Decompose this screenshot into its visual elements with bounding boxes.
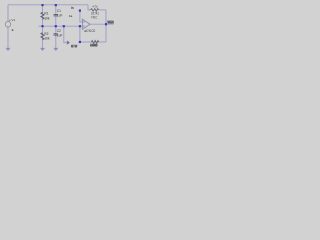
source plus mark <box>9 20 10 21</box>
resistor R1 <box>41 12 44 19</box>
source V1 circle <box>5 22 11 28</box>
resistor R4 (bottom rail) <box>91 41 98 44</box>
wire bottom rail <box>80 41 106 43</box>
node out <box>105 23 107 25</box>
node A2 <box>41 25 43 27</box>
net label 0V backing <box>71 45 77 48</box>
op-amp input polarity marks <box>83 22 84 26</box>
resistor R2 <box>41 33 44 40</box>
wire feedback left <box>88 5 91 10</box>
svg-text:1uF: 1uF <box>57 14 63 18</box>
wire branch E down <box>64 26 67 42</box>
wire feedback drop <box>105 10 107 42</box>
svg-text:R2: R2 <box>44 32 48 36</box>
label Vout backing <box>108 20 114 23</box>
svg-text:C1: C1 <box>57 9 61 13</box>
node D2 (bottom rail junction) <box>79 41 81 43</box>
wire feedback right <box>99 9 106 11</box>
wire branch A lower <box>42 26 44 48</box>
capacitor C1 <box>54 15 58 16</box>
wire op-amp plus input <box>80 12 82 22</box>
wire branch B vertical <box>55 5 57 26</box>
wire source to ground <box>7 27 9 48</box>
svg-text:C2: C2 <box>57 29 61 33</box>
node C1 (plus input stub) <box>79 10 81 12</box>
node A1 <box>41 4 43 6</box>
svg-text:uA741CD: uA741CD <box>84 29 96 33</box>
wire branch A vertical <box>42 5 44 26</box>
ground (branch A) <box>40 48 45 51</box>
svg-text:0.: 0. <box>12 28 15 32</box>
svg-text:10k: 10k <box>44 37 50 41</box>
node E1 (mid rail) <box>63 25 65 27</box>
ground (branch E, right-pointing) <box>67 40 70 44</box>
svg-text:1uF: 1uF <box>57 34 63 38</box>
wire top rail <box>8 4 88 6</box>
svg-text:Vout: Vout <box>107 19 114 24</box>
svg-text:V1: V1 <box>11 18 15 22</box>
ground (branch B) <box>53 48 58 51</box>
wire branch D down <box>79 26 81 42</box>
background <box>0 0 120 55</box>
node D1 (mid rail junction) <box>79 25 81 27</box>
wire output <box>90 23 114 25</box>
svg-text:1a: 1a <box>69 14 73 18</box>
resistor R3 (feedback) <box>91 9 99 12</box>
wire branch B lower <box>55 26 57 48</box>
svg-text:AGND: AGND <box>90 44 98 48</box>
svg-text:741C: 741C <box>91 16 98 20</box>
svg-text:4.7k: 4.7k <box>92 5 98 9</box>
svg-text:R1: R1 <box>44 12 48 16</box>
capacitor C2 <box>54 34 58 35</box>
svg-text:0 V: 0 V <box>71 45 78 49</box>
ground (source) <box>6 48 11 51</box>
wire middle rail <box>38 25 82 27</box>
node B1 <box>55 4 57 6</box>
wire left drop to source <box>7 5 9 22</box>
op-amp U1 <box>82 19 90 29</box>
node B2 <box>55 25 57 27</box>
svg-text:10k: 10k <box>44 16 50 20</box>
net label AGND backing <box>90 44 97 47</box>
svg-text:in: in <box>71 6 74 10</box>
